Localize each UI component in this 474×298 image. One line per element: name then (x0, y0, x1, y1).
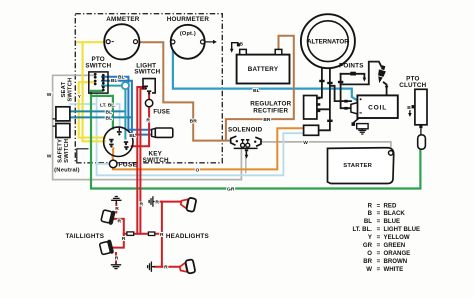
svg-text:SEAT: SEAT (61, 81, 67, 97)
ground taillight upper (111, 197, 121, 204)
svg-text:=: = (377, 202, 381, 209)
PTO clutch lower connector and capsule (419, 125, 422, 128)
svg-text:BATTERY: BATTERY (248, 66, 279, 73)
wire R red headlight lower feed (155, 266, 181, 268)
svg-text:LIGHT BLUE: LIGHT BLUE (384, 226, 421, 233)
svg-text:R: R (164, 265, 168, 271)
svg-text:W: W (47, 153, 52, 159)
svg-text:STARTER: STARTER (343, 163, 372, 169)
svg-text:BL: BL (118, 74, 125, 80)
solenoid terminal posts (241, 143, 245, 147)
svg-text:=: = (377, 234, 381, 241)
wire LT.BL pale stub at seat switch (70, 103, 97, 105)
svg-text:ALTERNATOR: ALTERNATOR (307, 38, 349, 45)
svg-text:=: = (377, 250, 381, 257)
svg-text:W: W (366, 266, 372, 273)
svg-text:BL: BL (106, 116, 113, 122)
wire R red headlight riser (161, 202, 163, 267)
coil plug connector (351, 103, 358, 114)
svg-text:HEADLIGHTS: HEADLIGHTS (166, 233, 209, 240)
wire LT.BL pale stub to fuse 2 (97, 163, 110, 165)
wire R red light switch second leg down to lights junction (140, 89, 145, 234)
coil terminal marks (360, 98, 362, 100)
key switch connector plug (152, 128, 156, 137)
wire Y yellow PTO switch branch (79, 82, 105, 137)
wire BL blue seat switch line 1 (70, 110, 125, 112)
coil bottom connector and ground (354, 118, 359, 123)
wire W white from PTO switch to solenoid via left side (53, 75, 242, 179)
taillight lamp upper (101, 208, 116, 225)
solenoid right bracket (255, 137, 261, 146)
solenoid left bracket (231, 136, 237, 145)
dashboard dashed border (75, 14, 222, 163)
svg-text:W: W (47, 92, 52, 98)
svg-text:WHITE: WHITE (384, 266, 404, 273)
svg-text:R: R (122, 236, 126, 242)
black wire alternator branch to coil plug (330, 86, 351, 101)
svg-text:Y: Y (368, 234, 372, 241)
ammeter (104, 24, 139, 59)
svg-text:R: R (118, 219, 122, 225)
fuse F2 (109, 160, 117, 168)
svg-text:=: = (377, 218, 381, 225)
ground headlight upper (149, 196, 156, 206)
headlight lamp lower (179, 259, 196, 275)
svg-text:=: = (377, 258, 381, 265)
svg-text:SWITCH: SWITCH (143, 157, 169, 164)
svg-text:AMMETER: AMMETER (106, 16, 139, 23)
wire Y yellow ammeter to key switch (77, 42, 106, 141)
points inline connector (350, 72, 356, 76)
seat switch box 1 (56, 107, 70, 121)
taillight lamp lower (99, 239, 114, 256)
wire R red light switch through fuse 1 to key switch (132, 94, 149, 146)
regulator 2-pin connector (304, 125, 319, 135)
wire BR brown battery to solenoid (226, 36, 294, 140)
svg-text:YELLOW: YELLOW (384, 234, 410, 241)
key switch (104, 127, 133, 156)
svg-text:=: = (377, 266, 381, 273)
points output arrow to coil (385, 86, 389, 90)
black wire points feed down to coil plug (341, 74, 351, 108)
svg-text:B: B (407, 105, 411, 111)
wire R red taillight lower ground stem (115, 253, 117, 263)
svg-text:R: R (155, 200, 159, 206)
ground taillight lower (111, 263, 121, 269)
svg-text:LT. BL.: LT. BL. (100, 102, 116, 108)
svg-text:R: R (115, 206, 119, 212)
svg-text:HOURMETER: HOURMETER (167, 16, 210, 23)
svg-text:GR: GR (227, 187, 235, 193)
PTO clutch box (415, 89, 427, 125)
black wire alternator lead 2 to regulator and connector (317, 69, 330, 131)
wire GR green branch to key switch (91, 96, 113, 128)
light switch bracket (143, 79, 155, 93)
svg-text:POINTS: POINTS (339, 63, 364, 70)
wire W solenoid to starter (261, 142, 391, 151)
coil plug wire ticks (344, 100, 347, 103)
svg-text:COIL: COIL (368, 104, 387, 111)
headlight junction connector (148, 232, 154, 236)
points condenser glyph (375, 65, 387, 84)
svg-text:RECTIFIER: RECTIFIER (253, 107, 288, 114)
svg-text:R: R (368, 202, 373, 209)
black wire points loop to condenser (341, 62, 382, 85)
wire W solenoid pin2 drop (245, 148, 247, 172)
svg-text:BL: BL (129, 133, 136, 139)
svg-text:O: O (367, 250, 372, 257)
wire teal PTO to node to key switch (102, 86, 125, 139)
svg-text:BR: BR (190, 119, 198, 125)
svg-text:R: R (146, 118, 150, 124)
solenoid base (234, 147, 258, 149)
svg-text:BLUE: BLUE (384, 218, 401, 225)
svg-text:BLACK: BLACK (384, 210, 406, 217)
svg-text:(Opt.): (Opt.) (180, 31, 196, 37)
wire LT.BL pale to key switch top (117, 104, 120, 127)
points engine arrow (363, 78, 367, 82)
wire LT.BL pale long run to regulator connector (97, 93, 305, 175)
wire BL hourmeter to coil long line (173, 44, 358, 100)
svg-text:SWITCH: SWITCH (85, 63, 111, 70)
black wire condenser to coil top (384, 82, 387, 95)
headlight lamp upper (180, 196, 197, 212)
wire R red headlight upper feed (156, 201, 182, 203)
wire R red light switch left leg down to lights junction (137, 87, 144, 234)
svg-text:SAFETY: SAFETY (58, 139, 64, 163)
svg-text:BL: BL (106, 109, 113, 115)
svg-text:=: = (377, 242, 381, 249)
svg-text:B: B (368, 210, 373, 217)
seat switch box 2 (56, 124, 70, 138)
ground headlight lower (148, 262, 155, 272)
svg-text:(Neutral): (Neutral) (54, 167, 80, 173)
svg-text:R: R (115, 255, 119, 261)
svg-text:CLUTCH: CLUTCH (399, 82, 426, 89)
svg-text:W: W (303, 140, 308, 146)
svg-text:SWITCH: SWITCH (67, 78, 73, 102)
starter (328, 148, 394, 184)
battery ground bracket B (232, 43, 239, 50)
svg-text:LT. BL.: LT. BL. (352, 226, 372, 233)
wire R red lights junction bar (124, 233, 162, 235)
svg-text:SOLENOID: SOLENOID (228, 127, 263, 134)
fuse F1 (145, 99, 152, 106)
svg-text:SWITCH: SWITCH (134, 69, 160, 76)
wire R red taillight upper ground stem (115, 204, 117, 213)
svg-text:=: = (377, 226, 381, 233)
svg-text:=: = (377, 210, 381, 217)
svg-text:O: O (195, 167, 199, 173)
black wire alternator lead 1 to regulator prong (317, 67, 322, 97)
battery (237, 55, 290, 84)
regulator rectifier box (304, 96, 317, 120)
alternator (301, 14, 355, 68)
svg-text:RED: RED (384, 202, 397, 209)
wire BR brown ammeter to solenoid (136, 42, 230, 140)
black wire points horizontal (341, 74, 365, 79)
svg-text:BROWN: BROWN (384, 258, 408, 265)
svg-text:ORANGE: ORANGE (384, 250, 411, 257)
svg-text:BL: BL (364, 218, 372, 225)
svg-text:Y: Y (78, 94, 81, 99)
wire BL blue PTO to connector upper (102, 77, 154, 130)
PTO switch box (89, 72, 108, 93)
svg-text:SWITCH: SWITCH (64, 139, 70, 163)
hourmeter (171, 25, 205, 59)
coil U1 (357, 95, 397, 118)
svg-text:BR: BR (363, 258, 372, 265)
wire R red taillight branch upper (114, 219, 124, 234)
safety switch bracket (77, 149, 89, 163)
svg-text:GREEN: GREEN (384, 242, 406, 249)
svg-text:GR: GR (363, 242, 373, 249)
alternator lead connector ticks (319, 80, 324, 82)
svg-text:R: R (160, 232, 164, 238)
taillight junction connector (127, 232, 134, 236)
node junction circle on teal wire (122, 82, 129, 89)
svg-text:REGULATOR: REGULATOR (250, 100, 291, 107)
svg-text:FUSE: FUSE (118, 161, 137, 168)
wire O orange key switch through fuse to regulator connector (113, 128, 305, 169)
svg-text:R: R (140, 202, 144, 208)
wire R red taillight branch lower (113, 234, 124, 248)
svg-text:FUSE: FUSE (153, 110, 170, 116)
svg-text:BL: BL (253, 88, 260, 94)
wire GR green main loop to starter area (91, 91, 420, 189)
svg-text:BR: BR (263, 117, 271, 123)
wire BL blue PTO to connector lower (102, 81, 154, 135)
svg-text:TAILLIGHTS: TAILLIGHTS (65, 233, 104, 240)
svg-text:B: B (240, 41, 244, 47)
wire BL blue seat switch line 2 (70, 116, 132, 118)
solenoid B ground arrow (245, 149, 248, 151)
svg-text:BL: BL (111, 78, 118, 84)
